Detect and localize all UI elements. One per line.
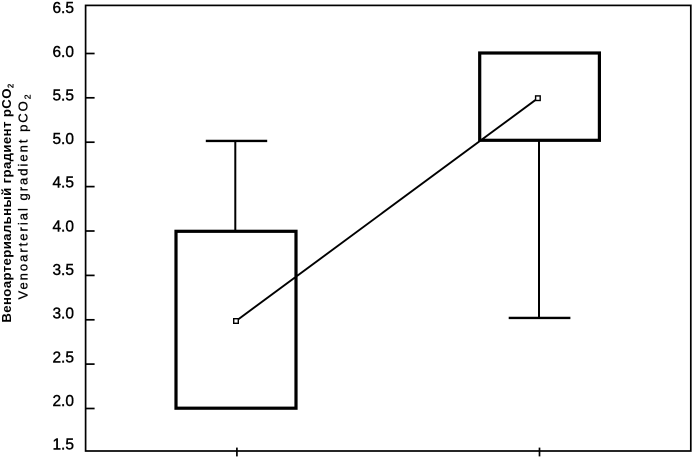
svg-text:6.0: 6.0 — [52, 44, 74, 61]
svg-text:5.5: 5.5 — [52, 88, 74, 105]
x tick group 2 — [539, 448, 541, 457]
svg-text:3.0: 3.0 — [52, 306, 74, 323]
svg-text:Venoarterial gradient pCO2: Venoarterial gradient pCO2 — [16, 92, 33, 299]
svg-text:3.5: 3.5 — [52, 262, 74, 279]
whisker cap 3.0 group 2 — [509, 317, 571, 319]
box group 1 (2.0-4.0) — [176, 231, 296, 408]
y tick 5.0 — [86, 141, 95, 143]
median marker group 2 — [536, 96, 541, 101]
whisker stem group 1 — [234, 142, 236, 231]
connecting line between medians — [236, 98, 538, 321]
svg-text:4.0: 4.0 — [52, 218, 74, 235]
y tick 2.5 — [86, 363, 95, 365]
svg-text:Веноартериальный градиент pCO2: Веноартериальный градиент pCO2 — [0, 83, 16, 323]
svg-text:2.5: 2.5 — [52, 349, 74, 366]
svg-text:6.5: 6.5 — [52, 0, 74, 17]
x tick group 1 — [236, 448, 238, 457]
y tick 4.0 — [86, 230, 95, 232]
whisker stem group 2 — [538, 142, 540, 319]
y tick 5.5 — [86, 97, 95, 99]
whisker cap 5.0 group 1 — [206, 140, 267, 142]
y tick 3.0 — [86, 319, 95, 321]
y tick 2.0 — [86, 408, 95, 410]
y tick 6.0 — [86, 53, 95, 55]
y tick 3.5 — [86, 274, 95, 276]
svg-text:4.5: 4.5 — [52, 175, 74, 192]
svg-text:5.0: 5.0 — [52, 131, 74, 148]
svg-text:1.5: 1.5 — [52, 437, 74, 454]
box group 2 (5.0-6.0) — [480, 53, 600, 140]
svg-text:2.0: 2.0 — [52, 393, 74, 410]
y tick 4.5 — [86, 186, 95, 188]
median marker group 1 — [234, 319, 239, 324]
